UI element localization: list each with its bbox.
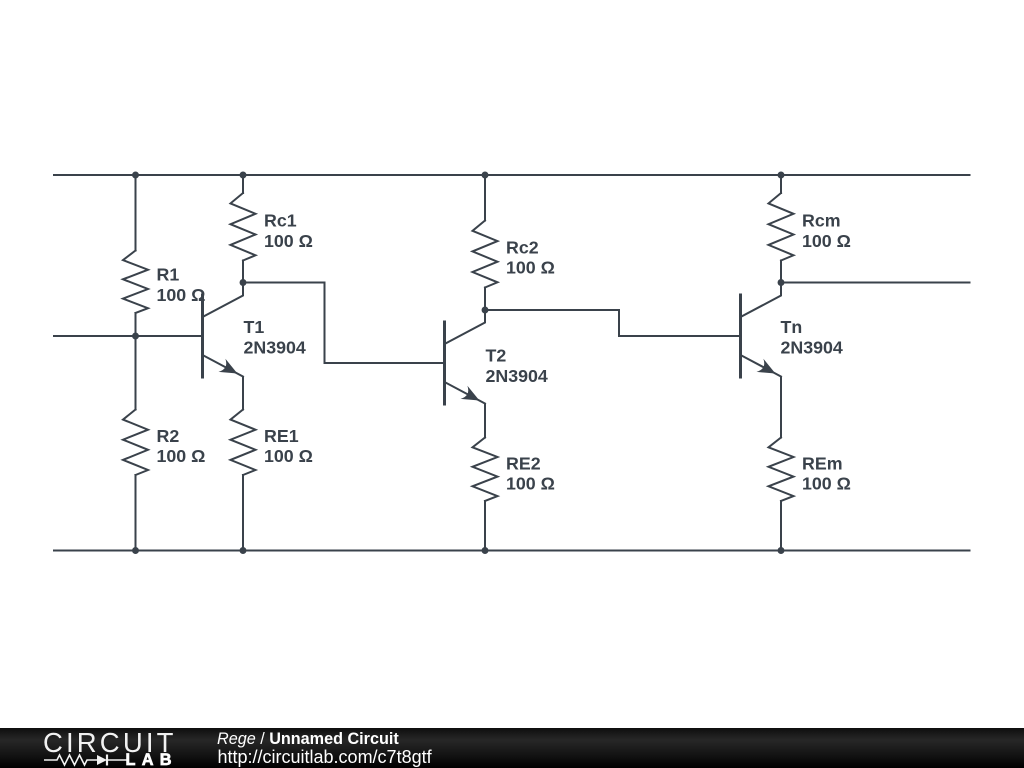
junction bottom rail / R2 — [132, 547, 139, 554]
wire top supply rail — [54, 174, 970, 176]
junction bottom rail / RE2 — [482, 547, 489, 554]
footer bar — [0, 728, 1024, 768]
transistor Tn (NPN 2N3904) — [741, 283, 843, 378]
footer circuit title — [217, 730, 399, 749]
junction top rail / R1 — [132, 172, 139, 179]
wire T2 collector to stage 3 (vertical) — [618, 310, 620, 336]
svg-text:100 Ω: 100 Ω — [802, 231, 851, 251]
CircuitLab logo wordmark LAB — [126, 751, 178, 768]
resistor R1 — [123, 175, 205, 336]
svg-text:T2: T2 — [486, 346, 507, 366]
footer url — [218, 747, 432, 768]
wire stage 3 wire to Tn base — [619, 335, 741, 337]
svg-text:2N3904: 2N3904 — [781, 337, 843, 357]
CircuitLab logo resistor-diode glyph — [44, 752, 128, 768]
resistor RE2 — [473, 404, 555, 551]
resistor Rc2 — [473, 175, 555, 310]
resistor RE1 — [231, 377, 313, 551]
svg-text:100 Ω: 100 Ω — [802, 474, 851, 494]
wire bottom ground rail — [54, 550, 970, 552]
svg-text:100 Ω: 100 Ω — [264, 446, 313, 466]
svg-text:100 Ω: 100 Ω — [506, 474, 555, 494]
resistor Rc1 — [231, 175, 313, 283]
svg-text:Rcm: Rcm — [802, 211, 841, 231]
junction top rail / Rc1 — [240, 172, 247, 179]
resistor Rcm — [769, 175, 851, 283]
junction top rail / Rc2 — [482, 172, 489, 179]
wire stage 2 wire to T2 base — [325, 362, 445, 364]
transistor T2 (NPN 2N3904) — [445, 310, 548, 405]
transistor T1 (NPN 2N3904) — [203, 283, 306, 378]
wire T1 collector to stage 2 (horizontal) — [243, 282, 325, 284]
svg-text:Rc2: Rc2 — [506, 237, 539, 257]
resistor R2 — [123, 336, 205, 551]
svg-text:RE2: RE2 — [506, 453, 541, 473]
svg-text:100 Ω: 100 Ω — [506, 258, 555, 278]
svg-text:RE1: RE1 — [264, 426, 299, 446]
junction T1 collector node — [240, 279, 247, 286]
resistor REm — [769, 378, 851, 551]
svg-text:100 Ω: 100 Ω — [157, 446, 206, 466]
junction input rail / R1-R2 — [132, 333, 139, 340]
junction top rail / Rcm — [778, 172, 785, 179]
svg-text:R1: R1 — [157, 265, 180, 285]
wire Tn collector to output — [781, 282, 970, 284]
svg-text:Tn: Tn — [781, 317, 803, 337]
svg-text:2N3904: 2N3904 — [244, 337, 306, 357]
svg-text:100 Ω: 100 Ω — [264, 231, 313, 251]
wire T1 collector to stage 2 (vertical) — [324, 283, 326, 364]
wire input rail to T1 base — [54, 335, 203, 337]
junction T2 collector node — [482, 307, 489, 314]
svg-text:REm: REm — [802, 453, 843, 473]
junction bottom rail / RE1 — [240, 547, 247, 554]
junction bottom rail / REm — [778, 547, 785, 554]
svg-text:R2: R2 — [157, 426, 180, 446]
junction Tn collector node — [778, 279, 785, 286]
CircuitLab logo wordmark CIRCUIT — [43, 727, 177, 759]
svg-text:100 Ω: 100 Ω — [157, 285, 206, 305]
svg-text:2N3904: 2N3904 — [486, 366, 548, 386]
svg-text:Rc1: Rc1 — [264, 211, 297, 231]
wire T2 collector to stage 3 (horizontal) — [485, 309, 619, 311]
svg-text:T1: T1 — [244, 317, 265, 337]
